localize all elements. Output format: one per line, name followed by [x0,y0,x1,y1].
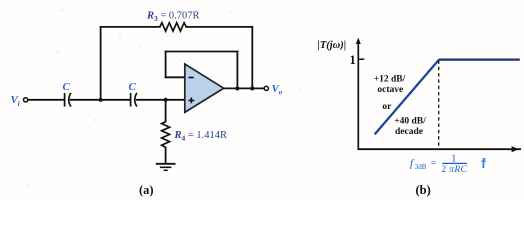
svg-text:or: or [382,102,392,112]
wire inverting input [166,76,185,78]
svg-text:2 πRC: 2 πRC [441,165,467,175]
wire inner feedback right vertical [236,52,238,89]
capacitor C2 [131,93,137,107]
wire top rail left segment to R3 [101,26,160,28]
wire top rail right segment from R3 to corner [186,26,252,28]
svg-text:+12 dB/: +12 dB/ [374,75,406,85]
output terminal [264,86,268,90]
ground [156,164,176,171]
svg-text:R3 = 0.707R: R3 = 0.707R [146,10,200,23]
resistor R4 [162,122,170,148]
svg-text:1: 1 [350,53,356,67]
wire node B down to resistor R4 [165,100,167,122]
svg-text:octave: octave [377,85,403,95]
svg-text:+40 dB/: +40 dB/ [394,117,426,127]
svg-text:3dB: 3dB [415,163,427,171]
svg-text:(b): (b) [416,183,431,197]
input terminal [24,98,28,102]
response curve rising slope [375,60,439,135]
svg-text:(a): (a) [139,183,154,197]
wire inner feedback left vertical [165,52,167,78]
junction dot inner feedback at output [235,86,239,90]
op-amp U1 [185,64,224,112]
wire input terminal to capacitor C1 [28,99,65,101]
wire feedback right vertical down to output [251,27,253,89]
svg-text:o: o [279,88,283,97]
wire capacitor C1 to capacitor C2 through node A [71,99,131,101]
svg-text:|T(jω)|: |T(jω)| [318,40,347,51]
svg-text:decade: decade [395,127,423,137]
wire inner feedback top segment [166,51,238,53]
wire op-amp output to terminal [224,87,265,89]
op-amp inverting pin mark - [189,77,194,79]
svg-text:f: f [481,156,486,171]
op-amp noninverting pin mark + [189,98,195,104]
background speckle [27,7,321,186]
node B junction dot [164,98,168,102]
svg-text:=: = [431,158,437,169]
node A junction dot [99,98,103,102]
y-axis [357,40,359,150]
capacitor C1 [65,93,71,107]
svg-text:C: C [63,81,71,93]
tick at unity gain [358,58,364,60]
x-axis [358,148,522,150]
junction dot R3 loop at output [250,86,254,90]
svg-text:C: C [129,81,137,93]
dashed marker at f3dB [438,61,440,149]
resistor R3 [160,23,186,31]
wire node A up to feedback top rail [100,27,102,100]
svg-text:R4 = 1.414R: R4 = 1.414R [174,130,228,143]
svg-text:i: i [18,99,21,108]
response curve flat top [439,58,520,60]
wire capacitor C2 to op-amp noninverting input [137,99,185,101]
wire resistor R4 to ground [165,147,167,163]
